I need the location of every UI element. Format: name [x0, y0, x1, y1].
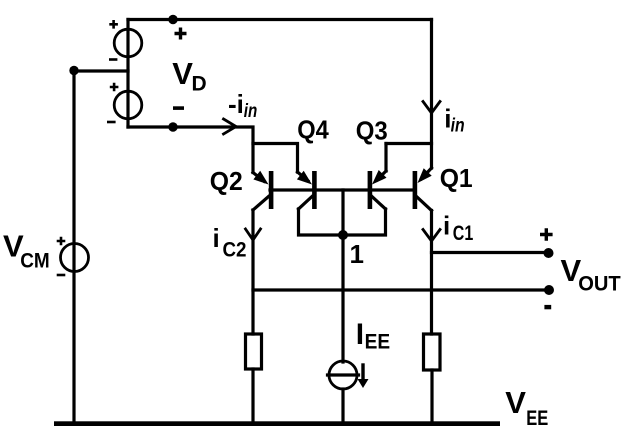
svg-text:-i: -i — [228, 89, 244, 119]
wire right resistor to rail — [430, 370, 433, 423]
current source IEE — [328, 361, 359, 389]
wire VOUT minus line — [253, 288, 549, 291]
plus sign VOUT — [540, 228, 553, 241]
resistor RC1 — [424, 334, 441, 370]
minus sign VCM source — [57, 274, 66, 277]
svg-text:EE: EE — [526, 407, 548, 430]
svg-text:Q3: Q3 — [356, 115, 388, 145]
plus sign VD upper source — [109, 20, 118, 29]
voltage source VD/2 upper — [114, 29, 142, 57]
big minus sign VD — [173, 106, 184, 110]
svg-text:Q1: Q1 — [440, 163, 473, 193]
node dot VCM link — [69, 66, 78, 75]
wire Q4 collector to node 1 — [299, 209, 344, 235]
big plus sign VD — [175, 28, 187, 40]
wire right input vertical — [430, 20, 433, 169]
transistor Q2 — [253, 171, 273, 210]
transistor Q4 — [297, 171, 317, 209]
svg-text:1: 1 — [350, 239, 364, 269]
svg-text:C2: C2 — [223, 239, 247, 262]
wire VCM to VD link — [74, 69, 128, 72]
wire center vertical to node 1 — [341, 190, 344, 362]
resistor RC2 — [246, 334, 262, 369]
plus sign VCM source — [57, 237, 66, 246]
transistor Q3 — [368, 170, 387, 209]
arrow -i_in — [224, 119, 237, 134]
svg-text:i: i — [213, 223, 220, 253]
svg-text:V: V — [172, 56, 193, 91]
plus sign VD lower source — [110, 83, 119, 92]
wire IEE to rail — [341, 389, 344, 423]
wire right branch — [386, 142, 432, 145]
arrow i_in — [423, 102, 440, 114]
svg-text:CM: CM — [20, 250, 50, 273]
wire top rail — [128, 18, 432, 21]
svg-text:V: V — [505, 385, 526, 420]
wire VD bottom to input corner — [128, 127, 253, 173]
wire VEE bottom rail — [54, 421, 500, 426]
minus sign VD lower source — [107, 121, 116, 124]
svg-text:Q4: Q4 — [297, 115, 329, 145]
wire Q2 collector vertical — [251, 210, 254, 334]
svg-text:C1: C1 — [453, 222, 474, 245]
wire left resistor to rail — [251, 369, 254, 423]
wire Q1 collector vertical — [430, 211, 433, 335]
wire left branch to Q4 emitter — [253, 144, 298, 173]
wire base line — [270, 188, 415, 191]
transistor Q1 — [413, 168, 432, 211]
minus sign VOUT — [544, 305, 551, 309]
wire VCM vertical — [72, 71, 75, 424]
wire VD chain vertical — [126, 20, 129, 128]
minus sign VD upper source — [109, 58, 117, 61]
svg-text:D: D — [192, 73, 207, 96]
arrow i_C2 — [246, 229, 261, 240]
wire VOUT plus line — [432, 251, 549, 254]
voltage source VCM — [61, 244, 89, 272]
terminal dot VOUT minus — [544, 285, 554, 295]
svg-text:i: i — [443, 211, 450, 241]
arrow i_C1 — [423, 230, 440, 242]
terminal dot VOUT plus — [544, 248, 554, 258]
svg-text:I: I — [356, 318, 364, 351]
node 1 dot — [338, 230, 348, 240]
node dot on top rail — [168, 15, 177, 24]
arrow IEE direction — [358, 365, 369, 388]
wire Q3 emitter drop — [384, 144, 387, 172]
svg-text:in: in — [451, 116, 465, 137]
node dot on VD bottom wire — [168, 122, 177, 131]
svg-text:in: in — [244, 101, 257, 122]
voltage source VD/2 lower — [114, 91, 142, 119]
wire Q3 collector to node 1 — [343, 209, 386, 235]
svg-text:EE: EE — [365, 331, 391, 354]
svg-text:Q2: Q2 — [210, 166, 243, 196]
svg-text:OUT: OUT — [578, 273, 621, 296]
